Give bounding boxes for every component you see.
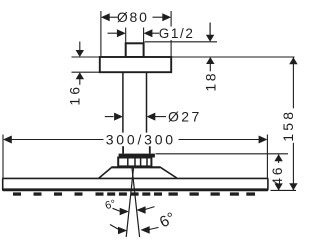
dimension 18 upper tail (209, 23, 211, 36)
nozzle dash row left zone (13, 192, 83, 195)
spray angle lower-left arrow pointing right (118, 227, 127, 235)
dimension 46 line lower segment (278, 185, 280, 191)
nozzle dash row center dense zone (96, 192, 163, 195)
cone right slope (160, 167, 177, 178)
svg-text:Ø27: Ø27 (168, 109, 202, 125)
dimension O80 arrow right (162, 13, 171, 21)
ceiling flange (100, 57, 171, 72)
dimension O80 line right segment (153, 16, 164, 18)
dimension G1/2 tail right (152, 32, 159, 34)
dimension G1/2 tail left (108, 32, 118, 34)
dimension 158 line upper segment (292, 57, 294, 108)
dimension O80 line left segment (109, 16, 118, 18)
dimension 46 arrow pointing up (274, 154, 282, 161)
extension line nut top right (156, 153, 289, 155)
ceiling line left (72, 56, 100, 58)
dimension O80 arrow left (101, 13, 110, 21)
extension line right of O80 dim lower segment (170, 40, 172, 57)
nut facet line 1 (127, 158, 129, 167)
shower head left edge (2, 178, 4, 189)
spray angle lower-right leader (149, 227, 159, 229)
dimension 158 arrow pointing up (289, 57, 297, 64)
svg-text:46: 46 (269, 165, 285, 186)
dimension 16 upper tail (79, 42, 81, 52)
spray angle lower-left leader (110, 225, 120, 230)
spray angle upper-right arrow pointing left (136, 206, 145, 214)
dimension 158 arrow pointing down (289, 183, 297, 190)
dimension O27 arrow pointing right (114, 113, 123, 121)
extension line left of G1/2 dim (125, 28, 127, 44)
extension line left of 300/300 (2, 135, 4, 179)
spray angle upper-left arrow pointing right (120, 208, 129, 216)
dimension O27 tail left (105, 116, 114, 118)
dimension G1/2 arrow pointing right (117, 29, 126, 37)
dimension 158 line lower segment (292, 143, 294, 190)
nut body (118, 158, 151, 167)
dimension 18 arrow pointing down (206, 35, 214, 42)
svg-text:16: 16 (67, 84, 83, 106)
svg-text:G1/2: G1/2 (159, 26, 195, 41)
dimension G1/2 arrow pointing left (144, 29, 153, 37)
dimension O27 tail right (155, 116, 166, 118)
svg-text:Ø80: Ø80 (117, 9, 149, 25)
dimension 46 arrow pointing down (274, 183, 282, 190)
nut facet line 2 (134, 158, 136, 167)
pipe left wall upper segment (122, 72, 124, 132)
extension line connector top right (145, 41, 218, 43)
cone top edge (112, 166, 160, 168)
dimension 18 arrow pointing up (206, 57, 214, 64)
dimension 16 arrow pointing up (76, 72, 84, 79)
svg-text:18: 18 (203, 71, 219, 92)
dimension 300/300 line left segment (12, 139, 104, 141)
svg-text:158: 158 (280, 109, 296, 142)
spray angle upper-left leader (113, 208, 122, 211)
collar upper box right side (149, 146, 151, 153)
spray line right (132, 168, 140, 237)
ceiling line right (171, 56, 294, 58)
dimension 300/300 line right segment (179, 139, 260, 141)
spray angle lower-right arrow pointing left (141, 226, 150, 234)
extension line right of O80 dim upper segment (170, 11, 172, 27)
dimension 46 line (278, 154, 280, 163)
extension line head bottom right (271, 189, 297, 191)
extension line right of 300/300 (266, 135, 268, 179)
dimension 16 lower tail (79, 78, 81, 85)
dimension 16 arrow pointing down (76, 50, 84, 57)
flange bottom extension left (72, 71, 100, 73)
nut facet line 4 (146, 158, 148, 167)
shower head top line (2, 177, 268, 179)
extension line left of O80 dim (100, 11, 102, 57)
dimension O27 arrow pointing left (147, 113, 156, 121)
dimension 300/300 arrow left (3, 136, 12, 144)
svg-text:6°: 6° (157, 209, 178, 231)
spray line left (126, 168, 133, 237)
shower head right edge (267, 178, 269, 189)
nozzle dash row right zone (169, 192, 256, 195)
collar plate (119, 154, 155, 158)
threaded connector square (126, 43, 144, 57)
collar upper box left side (122, 146, 124, 153)
shower head bottom band (2, 188, 269, 191)
dimension 18 tail (209, 63, 211, 72)
dimension 300/300 arrow right (259, 136, 268, 144)
extension line right of G1/2 dim (143, 28, 145, 44)
cone left slope (99, 167, 112, 178)
nut facet line 3 (140, 158, 142, 167)
pipe right wall upper segment (146, 72, 148, 132)
svg-text:300/300: 300/300 (106, 131, 176, 147)
spray angle upper-right leader (145, 207, 155, 210)
